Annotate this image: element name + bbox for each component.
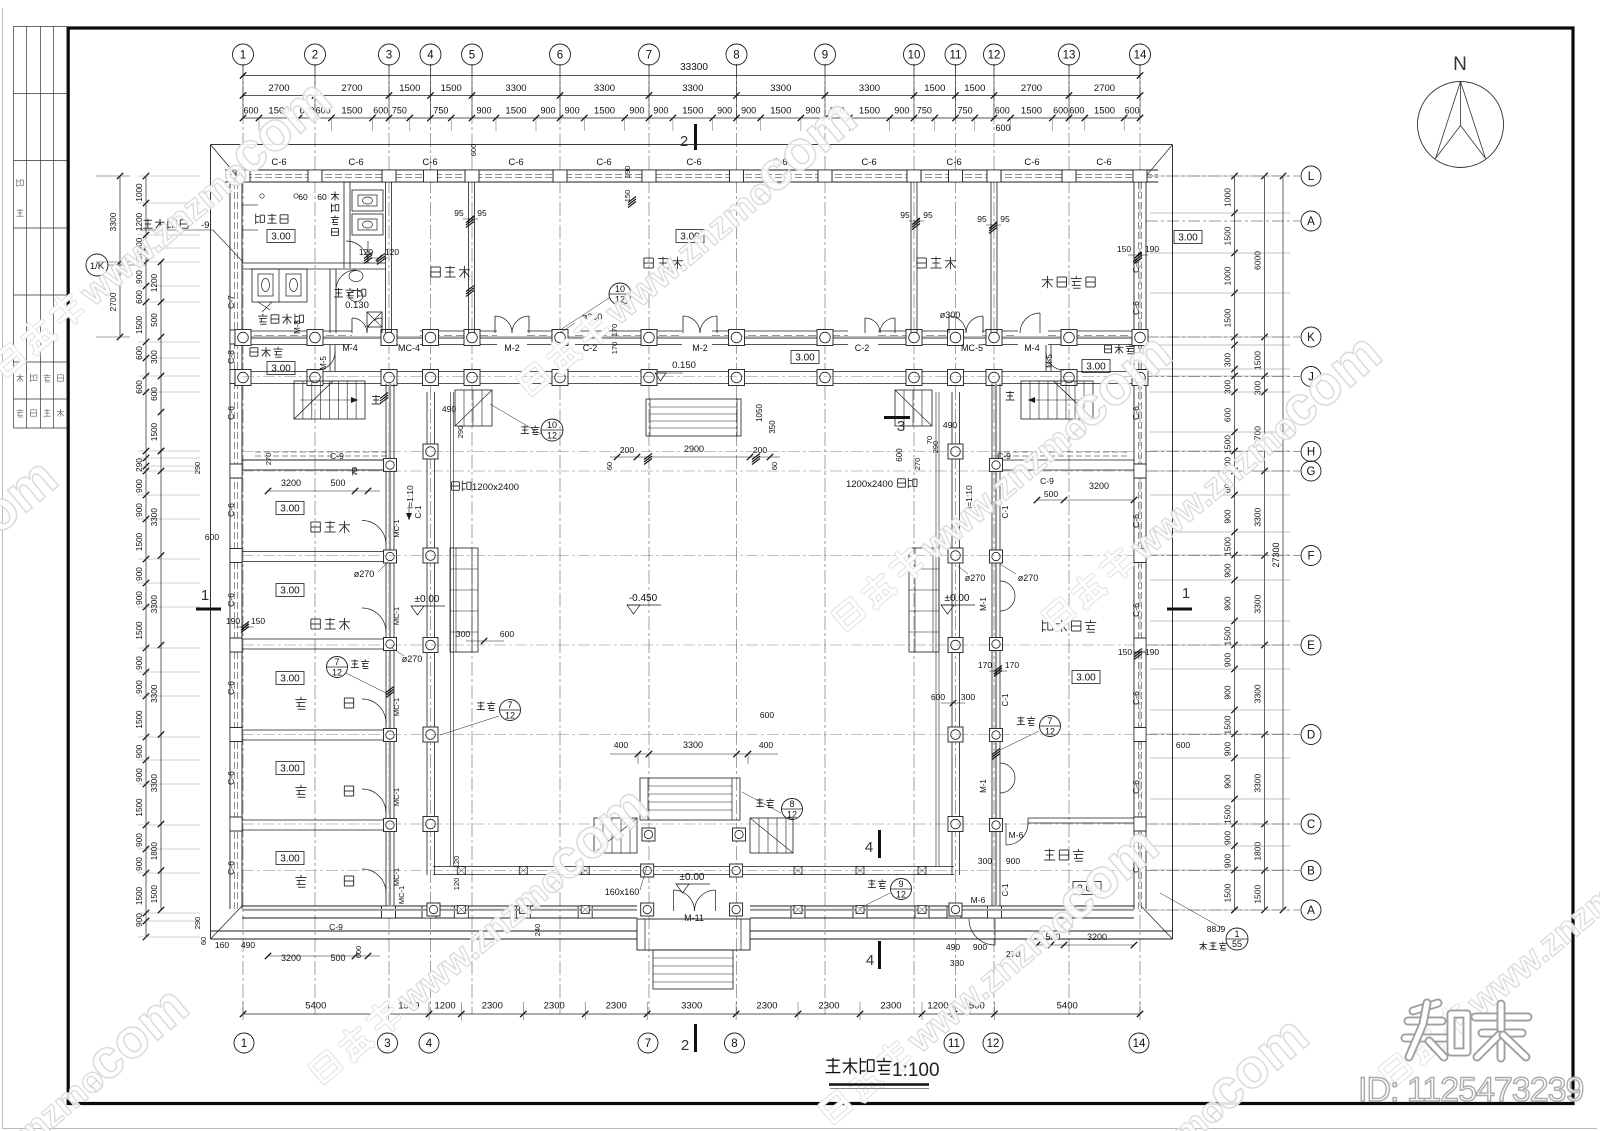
entrance dim 400 3300 400 xyxy=(610,753,778,755)
svg-text:12: 12 xyxy=(987,1038,1000,1050)
wall break marks xyxy=(380,395,388,401)
svg-text:270: 270 xyxy=(913,458,922,471)
svg-text:750: 750 xyxy=(917,106,932,116)
side steps right of portico xyxy=(750,818,793,853)
south wall band left wing xyxy=(242,905,637,907)
svg-text:1500: 1500 xyxy=(1253,351,1263,370)
svg-text:14: 14 xyxy=(1133,1038,1146,1050)
M-6 door right wing bottom xyxy=(969,919,995,945)
title strip table xyxy=(13,27,15,429)
top overall dim 33300 xyxy=(243,75,1140,77)
svg-text:3300: 3300 xyxy=(108,212,118,231)
svg-text:M-2: M-2 xyxy=(692,343,708,353)
corridor columns row K xyxy=(235,330,251,346)
svg-text:K: K xyxy=(1307,332,1315,344)
svg-text:3300: 3300 xyxy=(150,508,159,527)
svg-text:9: 9 xyxy=(822,50,828,62)
M-6 door control room xyxy=(1006,823,1028,845)
svg-text:1500: 1500 xyxy=(135,710,144,729)
building parapet outline xyxy=(211,144,1173,146)
svg-text:3: 3 xyxy=(386,50,392,62)
left bench xyxy=(450,548,478,652)
svg-text:ø270: ø270 xyxy=(402,654,423,664)
svg-text:3300: 3300 xyxy=(1253,684,1263,703)
svg-text:60: 60 xyxy=(298,192,308,202)
svg-text:3300: 3300 xyxy=(594,83,615,94)
svg-text:2300: 2300 xyxy=(606,1001,627,1012)
svg-text:1500: 1500 xyxy=(1223,883,1233,902)
svg-text:60: 60 xyxy=(199,937,208,945)
svg-text:M-2: M-2 xyxy=(504,343,520,353)
svg-text:120: 120 xyxy=(452,878,461,891)
watermarks xyxy=(0,66,343,387)
svg-text:900: 900 xyxy=(135,567,144,581)
svg-text:290: 290 xyxy=(193,917,202,930)
svg-text:±0.00: ±0.00 xyxy=(680,872,705,883)
courtyard south steps xyxy=(640,778,740,820)
colonnade row B xyxy=(433,866,954,868)
svg-text:2: 2 xyxy=(681,1037,689,1054)
right wing room labels xyxy=(1041,620,1043,632)
svg-text:500: 500 xyxy=(330,478,345,488)
svg-text:160: 160 xyxy=(215,940,229,950)
svg-text:C: C xyxy=(1307,819,1315,831)
svg-text:C-6: C-6 xyxy=(226,593,236,607)
svg-text:ID: 1125473239: ID: 1125473239 xyxy=(1358,1071,1584,1109)
bubble 8/12 steps xyxy=(782,799,803,820)
svg-text:C-1: C-1 xyxy=(414,505,423,518)
svg-text:900: 900 xyxy=(741,106,756,116)
svg-text:±0.00: ±0.00 xyxy=(945,593,970,604)
bubble 9/12 xyxy=(891,879,912,900)
svg-text:900: 900 xyxy=(1223,742,1233,756)
svg-text:270: 270 xyxy=(264,453,273,466)
svg-text:1500: 1500 xyxy=(1223,537,1233,556)
svg-text:95: 95 xyxy=(977,214,987,224)
svg-text:12: 12 xyxy=(896,890,906,900)
svg-text:900: 900 xyxy=(629,106,644,116)
svg-text:70: 70 xyxy=(350,468,359,476)
svg-text:1500: 1500 xyxy=(341,106,362,117)
svg-text:300: 300 xyxy=(1253,381,1263,395)
svg-text:490: 490 xyxy=(241,940,255,950)
svg-text:12: 12 xyxy=(547,431,557,441)
svg-text:95: 95 xyxy=(923,210,933,220)
vertical grid lines xyxy=(242,64,244,1014)
svg-text:14: 14 xyxy=(1134,50,1147,62)
svg-text:0.150: 0.150 xyxy=(672,360,696,371)
svg-text:M-1: M-1 xyxy=(979,779,988,793)
svg-text:290: 290 xyxy=(456,426,465,439)
svg-text:190: 190 xyxy=(1145,244,1159,254)
znzmo logo xyxy=(1413,1003,1438,1011)
svg-text:1050: 1050 xyxy=(755,404,764,422)
courtyard north steps xyxy=(646,399,741,436)
svg-text:C-6: C-6 xyxy=(1131,603,1141,617)
svg-text:M-1: M-1 xyxy=(979,597,988,611)
svg-text:1500: 1500 xyxy=(1223,626,1233,645)
svg-text:900: 900 xyxy=(135,744,144,758)
svg-text:M-5: M-5 xyxy=(319,356,328,370)
svg-text:1200: 1200 xyxy=(435,1001,456,1012)
svg-text:1500: 1500 xyxy=(964,83,985,94)
svg-text:3: 3 xyxy=(384,1038,390,1050)
svg-text:1500: 1500 xyxy=(150,422,159,441)
left wing MC-1 doors xyxy=(362,521,386,545)
svg-text:900: 900 xyxy=(1223,685,1233,699)
svg-text:900: 900 xyxy=(1223,831,1233,845)
svg-text:33300: 33300 xyxy=(680,62,708,73)
svg-text:1000: 1000 xyxy=(1223,266,1233,285)
right grid bubbles xyxy=(1301,166,1321,186)
west outer wall band xyxy=(229,182,231,909)
svg-text:C-8: C-8 xyxy=(226,350,236,364)
svg-text:H: H xyxy=(1307,447,1315,459)
svg-text:12: 12 xyxy=(787,810,797,820)
svg-text:3.00: 3.00 xyxy=(271,364,291,375)
svg-text:900: 900 xyxy=(540,106,555,116)
svg-text:12: 12 xyxy=(988,50,1001,62)
svg-text:900: 900 xyxy=(135,479,144,493)
svg-text:D: D xyxy=(1307,730,1315,742)
bottom dim chain xyxy=(243,1013,1140,1015)
svg-text:600: 600 xyxy=(931,692,945,702)
svg-text:2300: 2300 xyxy=(880,1001,901,1012)
svg-text:1500: 1500 xyxy=(135,315,144,334)
door-opening labels xyxy=(452,481,460,483)
svg-text:600: 600 xyxy=(1053,106,1068,116)
svg-text:290: 290 xyxy=(135,458,144,472)
svg-text:C-2: C-2 xyxy=(583,343,598,353)
svg-text:600: 600 xyxy=(1069,106,1084,116)
svg-text:C-9: C-9 xyxy=(329,922,343,932)
svg-text:E: E xyxy=(1307,640,1315,652)
svg-text:1500: 1500 xyxy=(1094,106,1115,117)
svg-text:3200: 3200 xyxy=(1089,481,1109,491)
svg-text:C-6: C-6 xyxy=(226,861,236,875)
svg-text:900: 900 xyxy=(135,768,144,782)
svg-text:C-6: C-6 xyxy=(1131,301,1141,315)
svg-text:600: 600 xyxy=(135,380,144,394)
svg-text:C-6: C-6 xyxy=(1131,691,1141,705)
portico steps xyxy=(653,950,733,989)
left colonnade columns xyxy=(423,444,438,459)
svg-text:2300: 2300 xyxy=(482,1001,503,1012)
svg-text:750: 750 xyxy=(392,106,407,116)
svg-text:3200: 3200 xyxy=(1087,932,1107,942)
svg-text:300: 300 xyxy=(961,692,975,702)
svg-text:170: 170 xyxy=(1005,660,1019,670)
svg-text:3300: 3300 xyxy=(150,684,159,703)
svg-text:A: A xyxy=(1307,216,1315,228)
svg-text:900: 900 xyxy=(1006,856,1020,866)
svg-text:900: 900 xyxy=(135,833,144,847)
svg-text:350: 350 xyxy=(768,420,777,434)
horizontal centerlines xyxy=(242,376,1134,378)
bathroom labels xyxy=(255,214,257,224)
svg-text:1500: 1500 xyxy=(924,83,945,94)
svg-text:120: 120 xyxy=(452,856,461,869)
svg-text:2300: 2300 xyxy=(544,1001,565,1012)
svg-text:3.00: 3.00 xyxy=(280,764,300,775)
svg-text:1500: 1500 xyxy=(1021,106,1042,117)
svg-text:95: 95 xyxy=(454,208,464,218)
svg-text:1500: 1500 xyxy=(135,532,144,551)
svg-text:160x160: 160x160 xyxy=(605,887,640,897)
svg-text:±0.00: ±0.00 xyxy=(415,594,440,605)
svg-text:C-6: C-6 xyxy=(1131,780,1141,794)
svg-text:1500: 1500 xyxy=(1223,226,1233,245)
portico columns at steps xyxy=(642,828,655,841)
svg-text:300: 300 xyxy=(150,350,159,364)
svg-text:10: 10 xyxy=(547,420,557,430)
svg-text:900: 900 xyxy=(1223,653,1233,667)
svg-text:3300: 3300 xyxy=(150,774,159,793)
right colonnade beam xyxy=(951,392,953,875)
page edge xyxy=(2,8,4,1129)
svg-text:3.00: 3.00 xyxy=(271,232,291,243)
bottom grid bubbles xyxy=(234,1033,254,1053)
svg-text:2700: 2700 xyxy=(1094,83,1115,94)
svg-text:1000: 1000 xyxy=(135,183,144,202)
svg-text:200: 200 xyxy=(753,445,767,455)
wash basins xyxy=(349,271,363,282)
vestibule steps right xyxy=(895,390,932,426)
svg-text:600: 600 xyxy=(205,532,219,542)
urinals xyxy=(352,190,383,211)
svg-text:1500: 1500 xyxy=(135,886,144,905)
svg-text:900: 900 xyxy=(894,106,909,116)
svg-text:3200: 3200 xyxy=(281,953,301,963)
svg-text:MC-1: MC-1 xyxy=(392,519,401,537)
svg-text:1: 1 xyxy=(1182,585,1190,602)
right wing wall columns xyxy=(990,459,1003,472)
svg-text:3.00: 3.00 xyxy=(1076,673,1096,684)
svg-text:600: 600 xyxy=(995,106,1010,116)
svg-text:C-6: C-6 xyxy=(946,157,961,168)
left wing east wall xyxy=(385,384,387,907)
svg-text:MC-1: MC-1 xyxy=(392,698,401,716)
svg-text:600: 600 xyxy=(1176,740,1190,750)
svg-text:3300: 3300 xyxy=(681,1001,702,1012)
svg-text:3300: 3300 xyxy=(150,595,159,614)
svg-text:11: 11 xyxy=(950,50,962,62)
svg-text:70: 70 xyxy=(925,436,934,444)
svg-text:600: 600 xyxy=(135,290,144,304)
svg-text:900: 900 xyxy=(717,106,732,116)
svg-text:1200x2400: 1200x2400 xyxy=(472,482,519,493)
svg-text:1500: 1500 xyxy=(399,83,420,94)
split bubble 10/12 xyxy=(609,283,631,305)
svg-text:1: 1 xyxy=(201,587,209,604)
svg-text:1:100: 1:100 xyxy=(892,1060,940,1081)
svg-text:400: 400 xyxy=(614,740,628,750)
svg-text:M-11: M-11 xyxy=(684,913,704,923)
svg-text:1500: 1500 xyxy=(770,106,791,117)
svg-text:900: 900 xyxy=(135,857,144,871)
door arc M-8 lower xyxy=(336,270,356,290)
svg-text:1500: 1500 xyxy=(682,106,703,117)
bubble 1/K xyxy=(86,254,108,276)
svg-text:3300: 3300 xyxy=(1253,773,1263,792)
courtyard left note bubble 7/12 xyxy=(500,700,521,721)
svg-text:330: 330 xyxy=(950,958,964,968)
veranda beam row J xyxy=(242,371,1134,373)
svg-text:MC-4: MC-4 xyxy=(398,343,420,353)
svg-text:900: 900 xyxy=(1223,509,1233,523)
svg-text:600: 600 xyxy=(150,387,159,401)
svg-text:4: 4 xyxy=(426,1038,433,1050)
svg-text:600: 600 xyxy=(760,710,774,720)
svg-text:150: 150 xyxy=(251,616,265,626)
left dim chains xyxy=(119,176,121,337)
svg-text:C-6: C-6 xyxy=(508,157,523,168)
svg-text:7: 7 xyxy=(645,1038,651,1050)
svg-text:1500: 1500 xyxy=(441,83,462,94)
svg-text:C-6: C-6 xyxy=(1096,157,1111,168)
side steps left of portico xyxy=(594,818,637,853)
svg-text:C-6: C-6 xyxy=(226,681,236,695)
svg-text:M-4: M-4 xyxy=(1024,343,1040,353)
svg-text:L: L xyxy=(1308,171,1315,183)
svg-text:300: 300 xyxy=(978,856,992,866)
svg-text:3300: 3300 xyxy=(682,83,703,94)
beam lines courtyard top walls xyxy=(242,459,395,461)
svg-text:1800: 1800 xyxy=(1253,841,1263,860)
svg-text:2700: 2700 xyxy=(341,83,362,94)
svg-text:2300: 2300 xyxy=(756,1001,777,1012)
courtyard edge lines xyxy=(450,392,452,866)
svg-text:13: 13 xyxy=(1063,50,1076,62)
svg-text:2: 2 xyxy=(312,50,318,62)
svg-text:7: 7 xyxy=(1047,716,1052,726)
svg-text:C-6: C-6 xyxy=(1024,157,1039,168)
top band partitions xyxy=(385,182,387,333)
svg-text:600: 600 xyxy=(895,448,904,462)
svg-text:5: 5 xyxy=(469,50,475,62)
svg-text:900: 900 xyxy=(135,656,144,670)
svg-text:750: 750 xyxy=(958,106,973,116)
svg-text:900: 900 xyxy=(653,106,668,116)
svg-text:150: 150 xyxy=(1117,244,1131,254)
svg-text:M-6: M-6 xyxy=(1009,830,1024,840)
svg-text:900: 900 xyxy=(135,591,144,605)
svg-text:1: 1 xyxy=(241,1038,247,1050)
svg-text:4: 4 xyxy=(865,839,873,856)
left colonnade beam xyxy=(426,392,428,875)
svg-text:600: 600 xyxy=(1223,408,1233,422)
toilet stalls xyxy=(252,269,307,302)
svg-text:C-1: C-1 xyxy=(1001,693,1010,706)
svg-text:C-6: C-6 xyxy=(596,157,611,168)
svg-text:4: 4 xyxy=(866,952,874,969)
svg-text:900: 900 xyxy=(1223,854,1233,868)
svg-text:600: 600 xyxy=(135,346,144,360)
svg-text:1200x2400: 1200x2400 xyxy=(846,479,893,490)
svg-text:1500: 1500 xyxy=(135,621,144,640)
svg-text:900: 900 xyxy=(1223,596,1233,610)
svg-text:C-6: C-6 xyxy=(422,157,437,168)
drawing title xyxy=(826,1059,839,1061)
portico outline xyxy=(637,919,750,950)
svg-text:900: 900 xyxy=(1223,774,1233,788)
svg-text:500: 500 xyxy=(1044,489,1058,499)
svg-text:190: 190 xyxy=(623,166,632,179)
svg-text:C-6: C-6 xyxy=(1131,259,1141,273)
svg-text:120: 120 xyxy=(385,247,399,257)
svg-text:95: 95 xyxy=(477,208,487,218)
svg-text:1500: 1500 xyxy=(1223,715,1233,734)
bathroom partition walls xyxy=(343,182,345,268)
svg-text:8: 8 xyxy=(733,50,739,62)
svg-text:10: 10 xyxy=(908,50,921,62)
svg-text:C-2: C-2 xyxy=(855,343,870,353)
north outer wall band with C-6 windows xyxy=(225,169,1158,171)
svg-text:900: 900 xyxy=(476,106,491,116)
floor drain xyxy=(367,312,382,327)
svg-text:G: G xyxy=(1307,466,1316,478)
svg-text:600: 600 xyxy=(373,106,388,116)
svg-text:490: 490 xyxy=(442,404,456,414)
svg-text:C-1: C-1 xyxy=(1001,883,1010,896)
svg-text:400: 400 xyxy=(759,740,773,750)
svg-text:6: 6 xyxy=(557,50,563,62)
svg-text:600: 600 xyxy=(995,123,1010,133)
svg-text:i=1:10: i=1:10 xyxy=(405,485,415,509)
svg-text:N: N xyxy=(1453,54,1467,75)
left wing partitions xyxy=(242,459,394,461)
svg-text:1500: 1500 xyxy=(1253,884,1263,903)
svg-text:MC-1: MC-1 xyxy=(392,788,401,806)
right colonnade columns xyxy=(948,444,963,459)
svg-text:3300: 3300 xyxy=(770,83,791,94)
svg-text:3.00: 3.00 xyxy=(280,674,300,685)
svg-text:900: 900 xyxy=(135,503,144,517)
svg-text:3300: 3300 xyxy=(1253,507,1263,526)
svg-text:3.00: 3.00 xyxy=(280,854,300,865)
svg-text:12: 12 xyxy=(1045,727,1055,737)
svg-text:500: 500 xyxy=(330,953,345,963)
svg-text:12: 12 xyxy=(505,711,515,721)
svg-text:4: 4 xyxy=(427,50,434,62)
svg-text:7: 7 xyxy=(334,657,339,667)
svg-text:8: 8 xyxy=(789,799,794,809)
svg-text:2: 2 xyxy=(680,133,688,150)
svg-text:C-6: C-6 xyxy=(686,157,701,168)
svg-text:ø270: ø270 xyxy=(965,573,986,583)
shower fittings xyxy=(260,194,264,198)
svg-text:5400: 5400 xyxy=(305,1001,326,1012)
room label office 1 xyxy=(431,266,440,268)
svg-text:3300: 3300 xyxy=(505,83,526,94)
svg-text:1500: 1500 xyxy=(1223,308,1233,327)
svg-text:M-4: M-4 xyxy=(342,343,358,353)
svg-text:1500: 1500 xyxy=(150,885,159,904)
north arrow xyxy=(1418,82,1504,168)
svg-text:7: 7 xyxy=(507,700,512,710)
svg-text:1500: 1500 xyxy=(135,798,144,817)
svg-text:MC-5: MC-5 xyxy=(961,343,983,353)
svg-text:900: 900 xyxy=(1223,563,1233,577)
svg-text:C-6: C-6 xyxy=(226,406,236,420)
veranda columns row J xyxy=(235,370,251,386)
svg-text:0.130: 0.130 xyxy=(345,300,369,311)
svg-text:C-6: C-6 xyxy=(861,157,876,168)
svg-text:A: A xyxy=(1307,905,1315,917)
svg-text:3200: 3200 xyxy=(281,478,301,488)
svg-text:F: F xyxy=(1307,551,1314,563)
top dim chain minor xyxy=(243,117,1140,119)
